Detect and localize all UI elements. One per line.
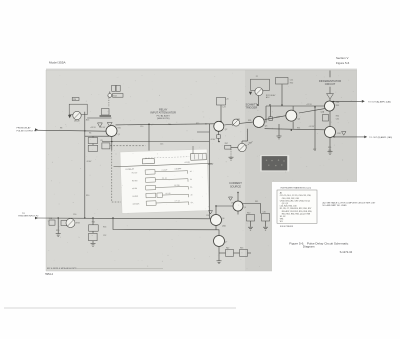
svg-text:R50: R50 (56, 230, 59, 232)
svg-text:CR8: CR8 (337, 133, 341, 135)
svg-text:TO: TO (22, 213, 25, 215)
svg-text:R15: R15 (196, 123, 199, 125)
svg-text:ADJ: ADJ (266, 96, 269, 99)
svg-text:5954-2: 5954-2 (45, 273, 53, 276)
svg-text:TRIG: TRIG (76, 223, 81, 225)
svg-text:R40: R40 (247, 212, 250, 214)
svg-text:R26: R26 (248, 120, 251, 122)
svg-text:C5 220: C5 220 (174, 185, 180, 187)
svg-text:TRIGGER: TRIGGER (245, 106, 257, 110)
svg-text:C6 .05: C6 .05 (165, 193, 170, 195)
svg-text:R33: R33 (336, 105, 339, 107)
svg-text:NO. AND PART NO. USED: NO. AND PART NO. USED (323, 204, 348, 207)
svg-text:-12.6V: -12.6V (86, 161, 92, 163)
svg-text:K1 RELAY: K1 RELAY (126, 168, 135, 171)
svg-text:Q2: Q2 (225, 129, 227, 131)
svg-text:R5 900K: R5 900K (133, 203, 141, 205)
svg-text:CR6: CR6 (206, 215, 210, 217)
svg-text:A1: A1 (280, 192, 282, 195)
svg-text:CR7: CR7 (231, 202, 235, 204)
svg-text:(SEE NOTE): (SEE NOTE) (157, 118, 170, 120)
svg-text:C15 8PF: C15 8PF (175, 168, 182, 170)
svg-text:C1 5PF: C1 5PF (162, 169, 168, 171)
svg-text:R25: R25 (118, 128, 121, 130)
svg-text:C22: C22 (290, 80, 293, 82)
svg-text:C50: C50 (73, 214, 76, 216)
svg-text:R5: R5 (101, 140, 103, 142)
svg-text:C4 .01: C4 .01 (162, 178, 167, 180)
svg-text:C35: C35 (328, 150, 331, 152)
svg-text:+12.5V: +12.5V (100, 127, 107, 129)
svg-text:Diagram: Diagram (303, 244, 315, 248)
svg-text:R1 100: R1 100 (132, 172, 138, 174)
svg-text:R30: R30 (290, 82, 293, 84)
svg-text:S-1272-34: S-1272-34 (340, 250, 353, 254)
svg-text:TO OUT (A) AMPL (1A4): TO OUT (A) AMPL (1A4) (368, 100, 391, 103)
svg-text:Q7: Q7 (225, 242, 227, 244)
svg-text:R13: R13 (113, 95, 116, 97)
svg-text:R37: R37 (313, 149, 316, 151)
svg-text:C7 .02: C7 .02 (175, 200, 180, 202)
svg-text:P/O A1 ASSY: P/O A1 ASSY (157, 115, 171, 118)
svg-text:Q6: Q6 (222, 218, 224, 220)
svg-text:R31: R31 (297, 127, 300, 129)
svg-text:Figure 5-6: Figure 5-6 (336, 61, 350, 65)
svg-text:MC & MCR & MCA HIGH SPD: MC & MCR & MCA HIGH SPD (47, 267, 77, 270)
svg-text:R41: R41 (255, 201, 258, 203)
svg-text:W1: W1 (280, 221, 283, 223)
svg-text:R60, R62, R64, R66, Q2-Q7, R68: R60, R62, R64, R66, Q2-Q7, R68 (282, 213, 310, 215)
svg-text:Q1: Q1 (118, 134, 120, 136)
svg-text:C40: C40 (263, 211, 266, 213)
svg-text:Q3: Q3 (265, 125, 267, 127)
svg-text:SOURCE: SOURCE (230, 184, 241, 188)
svg-text:+12.5V: +12.5V (306, 104, 313, 106)
svg-text:R6: R6 (89, 133, 91, 135)
svg-text:2N7: 2N7 (225, 143, 228, 145)
svg-text:R52: R52 (92, 222, 95, 224)
svg-text:R53: R53 (103, 226, 106, 228)
svg-text:+12.5V: +12.5V (309, 126, 316, 128)
svg-text:CIRCUIT: CIRCUIT (325, 82, 336, 86)
svg-text:PULSE OUTPUT P1: PULSE OUTPUT P1 (17, 130, 38, 132)
svg-text:+12.5V: +12.5V (90, 127, 97, 129)
svg-text:C30: C30 (336, 102, 339, 104)
svg-text:TO OUT (B) AMPL (1A5): TO OUT (B) AMPL (1A5) (369, 136, 392, 139)
svg-text:R35: R35 (328, 147, 331, 149)
svg-text:C52: C52 (103, 235, 106, 237)
svg-text:L20: L20 (226, 98, 229, 100)
svg-text:Model 355A: Model 355A (49, 60, 66, 64)
svg-text:R34: R34 (336, 116, 339, 118)
svg-text:Section V: Section V (336, 56, 348, 60)
svg-text:DELAY: DELAY (74, 120, 81, 123)
svg-text:Q4: Q4 (298, 119, 300, 121)
svg-text:INSTRUMENT MARKINGS (Cont): INSTRUMENT MARKINGS (Cont) (281, 187, 312, 190)
svg-text:L2O: L2O (223, 107, 227, 109)
svg-text:FROM DELAY: FROM DELAY (17, 127, 32, 130)
svg-text:A2: A2 (205, 122, 207, 125)
svg-text:R8: R8 (60, 128, 62, 130)
svg-text:RELAY: RELAY (208, 163, 214, 166)
svg-text:R28: R28 (277, 117, 280, 119)
svg-text:R10: R10 (86, 195, 89, 197)
svg-text:Figure 5-6. Pulse Delay Circ: Figure 5-6. Pulse Delay Circuit Schemati… (289, 241, 348, 245)
svg-text:C32: C32 (336, 118, 339, 120)
svg-text:C15: C15 (160, 144, 163, 146)
svg-text:R16: R16 (86, 119, 89, 121)
svg-text:+12.5V: +12.5V (184, 162, 190, 164)
svg-text:R27: R27 (249, 143, 252, 145)
svg-text:INPUT ATTENUATOR: INPUT ATTENUATOR (150, 111, 176, 115)
svg-text:Q5: Q5 (244, 207, 246, 209)
svg-text:R43: R43 (240, 248, 243, 250)
svg-text:R2 900: R2 900 (132, 180, 138, 182)
svg-text:R14: R14 (168, 124, 171, 126)
svg-text:22: 22 (256, 76, 258, 78)
svg-text:CR2: CR2 (237, 119, 241, 121)
svg-text:C10: C10 (140, 126, 143, 128)
svg-text:S/N 4 PREFIX: S/N 4 PREFIX (280, 226, 294, 228)
svg-text:-12.6V: -12.6V (210, 139, 216, 141)
svg-text:R4 90K: R4 90K (132, 196, 139, 198)
